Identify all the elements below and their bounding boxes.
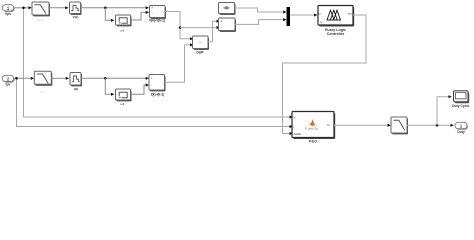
svg-text:z-1: z-1 — [120, 102, 124, 106]
svg-text:z-1: z-1 — [120, 28, 124, 32]
fuzzy logic controller U1 — [318, 6, 354, 37]
svg-text:Controller: Controller — [327, 32, 345, 36]
svg-text:P&O: P&O — [309, 139, 317, 143]
block unit delay z-1 (row2) — [116, 89, 132, 106]
node junction Ipv — [15, 77, 18, 80]
svg-text:+: + — [151, 77, 153, 81]
wire B2 to sum2 — [81, 77, 148, 79]
svg-text:P_and_O(): P_and_O() — [305, 126, 318, 130]
block rate limiter A2 — [34, 71, 52, 94]
wire A2 to B2 — [51, 77, 66, 79]
matlab logo — [309, 119, 316, 126]
wire Vpv branch vertical — [24, 8, 293, 117]
mux — [287, 7, 291, 26]
svg-text:+: + — [151, 6, 153, 10]
svg-text:+: + — [221, 20, 223, 24]
svg-text:-: - — [151, 84, 152, 88]
sum V(k)-V(k-1) — [149, 6, 166, 23]
svg-text:Ipv1: Ipv1 — [40, 90, 46, 94]
wire Ipv branch vertical — [17, 78, 293, 126]
wire oval1 to A1 — [14, 7, 30, 9]
svg-text:Vpv1: Vpv1 — [37, 18, 44, 22]
wire branch to delay1 — [105, 8, 111, 20]
svg-text:Ipv: Ipv — [6, 82, 11, 86]
wire A1 to B1 — [49, 7, 66, 9]
svg-text:↳: ↳ — [320, 20, 323, 24]
svg-text:Vpv: Vpv — [5, 12, 11, 16]
block rate limiter A1 — [32, 2, 50, 22]
svg-text:I(k): I(k) — [74, 87, 79, 91]
wire subtract out to mux — [235, 20, 284, 25]
input port Ipv — [2, 75, 15, 86]
svg-text:out: out — [348, 12, 352, 16]
block quantizer B2 — [70, 73, 82, 91]
wire divide out to mux — [235, 8, 284, 12]
svg-text:I(k)-I(k-1): I(k)-I(k-1) — [151, 92, 164, 96]
output port Duty — [455, 122, 468, 134]
node junction V(k) — [104, 7, 107, 10]
saturation block — [391, 117, 408, 134]
wire branch to delay2 — [105, 78, 111, 94]
node junction duty — [436, 124, 439, 127]
wire product out to subtract — [208, 21, 217, 42]
svg-text:Duty Cycle: Duty Cycle — [452, 104, 469, 108]
node junction I(k) — [104, 77, 107, 80]
block quantizer B1 — [70, 2, 82, 19]
svg-text:V(k)-V(k-1): V(k)-V(k-1) — [149, 18, 165, 22]
arrows into P&O V and I — [290, 115, 293, 118]
wire delay1 to sum1 — [131, 12, 147, 20]
input port Vpv — [2, 5, 15, 16]
svg-text:DelP: DelP — [196, 50, 204, 54]
node junction dV — [179, 26, 182, 29]
wire sum2 out to product — [165, 45, 191, 82]
svg-text:V: V — [294, 115, 296, 119]
wire B1 to sum1 — [81, 7, 147, 9]
wire branch to scope — [437, 97, 449, 126]
svg-text:Duty: Duty — [457, 130, 464, 134]
wire dV junction to subtract — [180, 27, 217, 29]
sum I(k)-I(k-1) — [149, 75, 166, 97]
wire FLC out down to P&O — [283, 15, 367, 134]
constant/divide small block — [219, 3, 236, 15]
wire saturation to duty oval — [407, 124, 451, 126]
wire P&O out to saturation — [334, 124, 388, 126]
svg-text:deltaD: deltaD — [294, 132, 302, 136]
subtract E block — [219, 18, 237, 32]
svg-text:-: - — [152, 11, 153, 15]
wire mux to FLC — [290, 14, 315, 16]
block unit delay z-1 (row1) — [116, 15, 132, 32]
wire oval2 to A2 — [14, 77, 32, 79]
svg-text:V(k): V(k) — [73, 15, 79, 19]
product DelP — [193, 36, 210, 54]
scope Duty Cycle — [452, 91, 469, 108]
node junction Vpv — [22, 7, 25, 10]
wire sum1 out to dV vertical — [165, 12, 191, 39]
wire delay2 to sum2 — [131, 85, 148, 94]
MATLAB function block P&O — [292, 112, 335, 144]
